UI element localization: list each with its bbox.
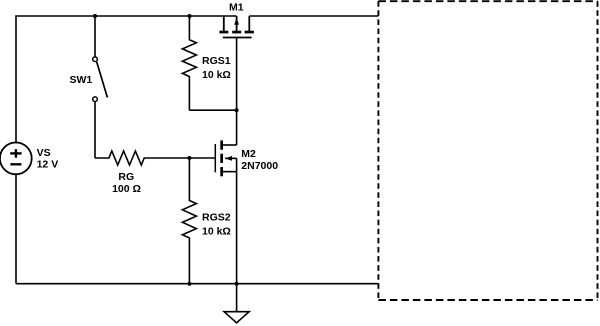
node RG / RGS2 / M2 gate junction [187,156,191,160]
transistor M1 PMOS [219,16,254,38]
node top rail / RGS1 junction [188,14,192,18]
wire M1 gate vertical [236,38,238,110]
wire M1 drain to load box [249,15,378,17]
svg-text:SW1: SW1 [70,74,93,86]
svg-text:RG: RG [118,171,134,183]
node bottom rail / ground junction [235,282,239,286]
svg-text:RGS2: RGS2 [202,212,231,224]
resistor RG 100ohm [95,151,189,165]
wire top rail from VS+ to M1 source/body [16,16,237,143]
node top rail / SW1 junction [93,14,97,18]
label RG 100 ohm [112,171,141,195]
svg-text:M2: M2 [241,148,256,160]
switch SW1 [93,16,108,158]
label RGS1 10 kohm [202,55,231,81]
wire M2 drain vertical [236,110,238,145]
label M2 2N7000 [241,148,278,172]
wire M2 source to bottom rail [236,172,238,284]
wire VS- to bottom rail [15,174,17,283]
label M1 [229,2,244,14]
ground [224,284,249,323]
svg-text:12 V: 12 V [37,159,59,171]
label RGS2 10 kohm [202,212,231,238]
voltage source VS 12V [0,143,32,175]
svg-text:VS: VS [37,147,51,159]
label VS 12 V [37,147,59,171]
svg-text:2N7000: 2N7000 [241,160,278,172]
transistor M2 NMOS 2N7000 [215,140,236,176]
load box (dashed) [378,1,597,300]
wire RGS1 bottom to M1 gate node [189,109,236,111]
wire bottom rail [16,283,378,285]
svg-text:M1: M1 [229,2,244,14]
node bottom rail / RGS2 junction [187,282,191,286]
svg-text:100 Ω: 100 Ω [112,183,141,195]
svg-text:10 kΩ: 10 kΩ [202,226,231,238]
svg-text:RGS1: RGS1 [202,55,231,67]
node M1 gate / RGS1 / M2 drain junction [235,108,239,112]
wire M2 gate [189,157,215,159]
resistor RGS1 10k [182,16,196,110]
svg-text:10 kΩ: 10 kΩ [202,69,231,81]
label SW1 [70,74,93,86]
resistor RGS2 10k [182,158,196,284]
